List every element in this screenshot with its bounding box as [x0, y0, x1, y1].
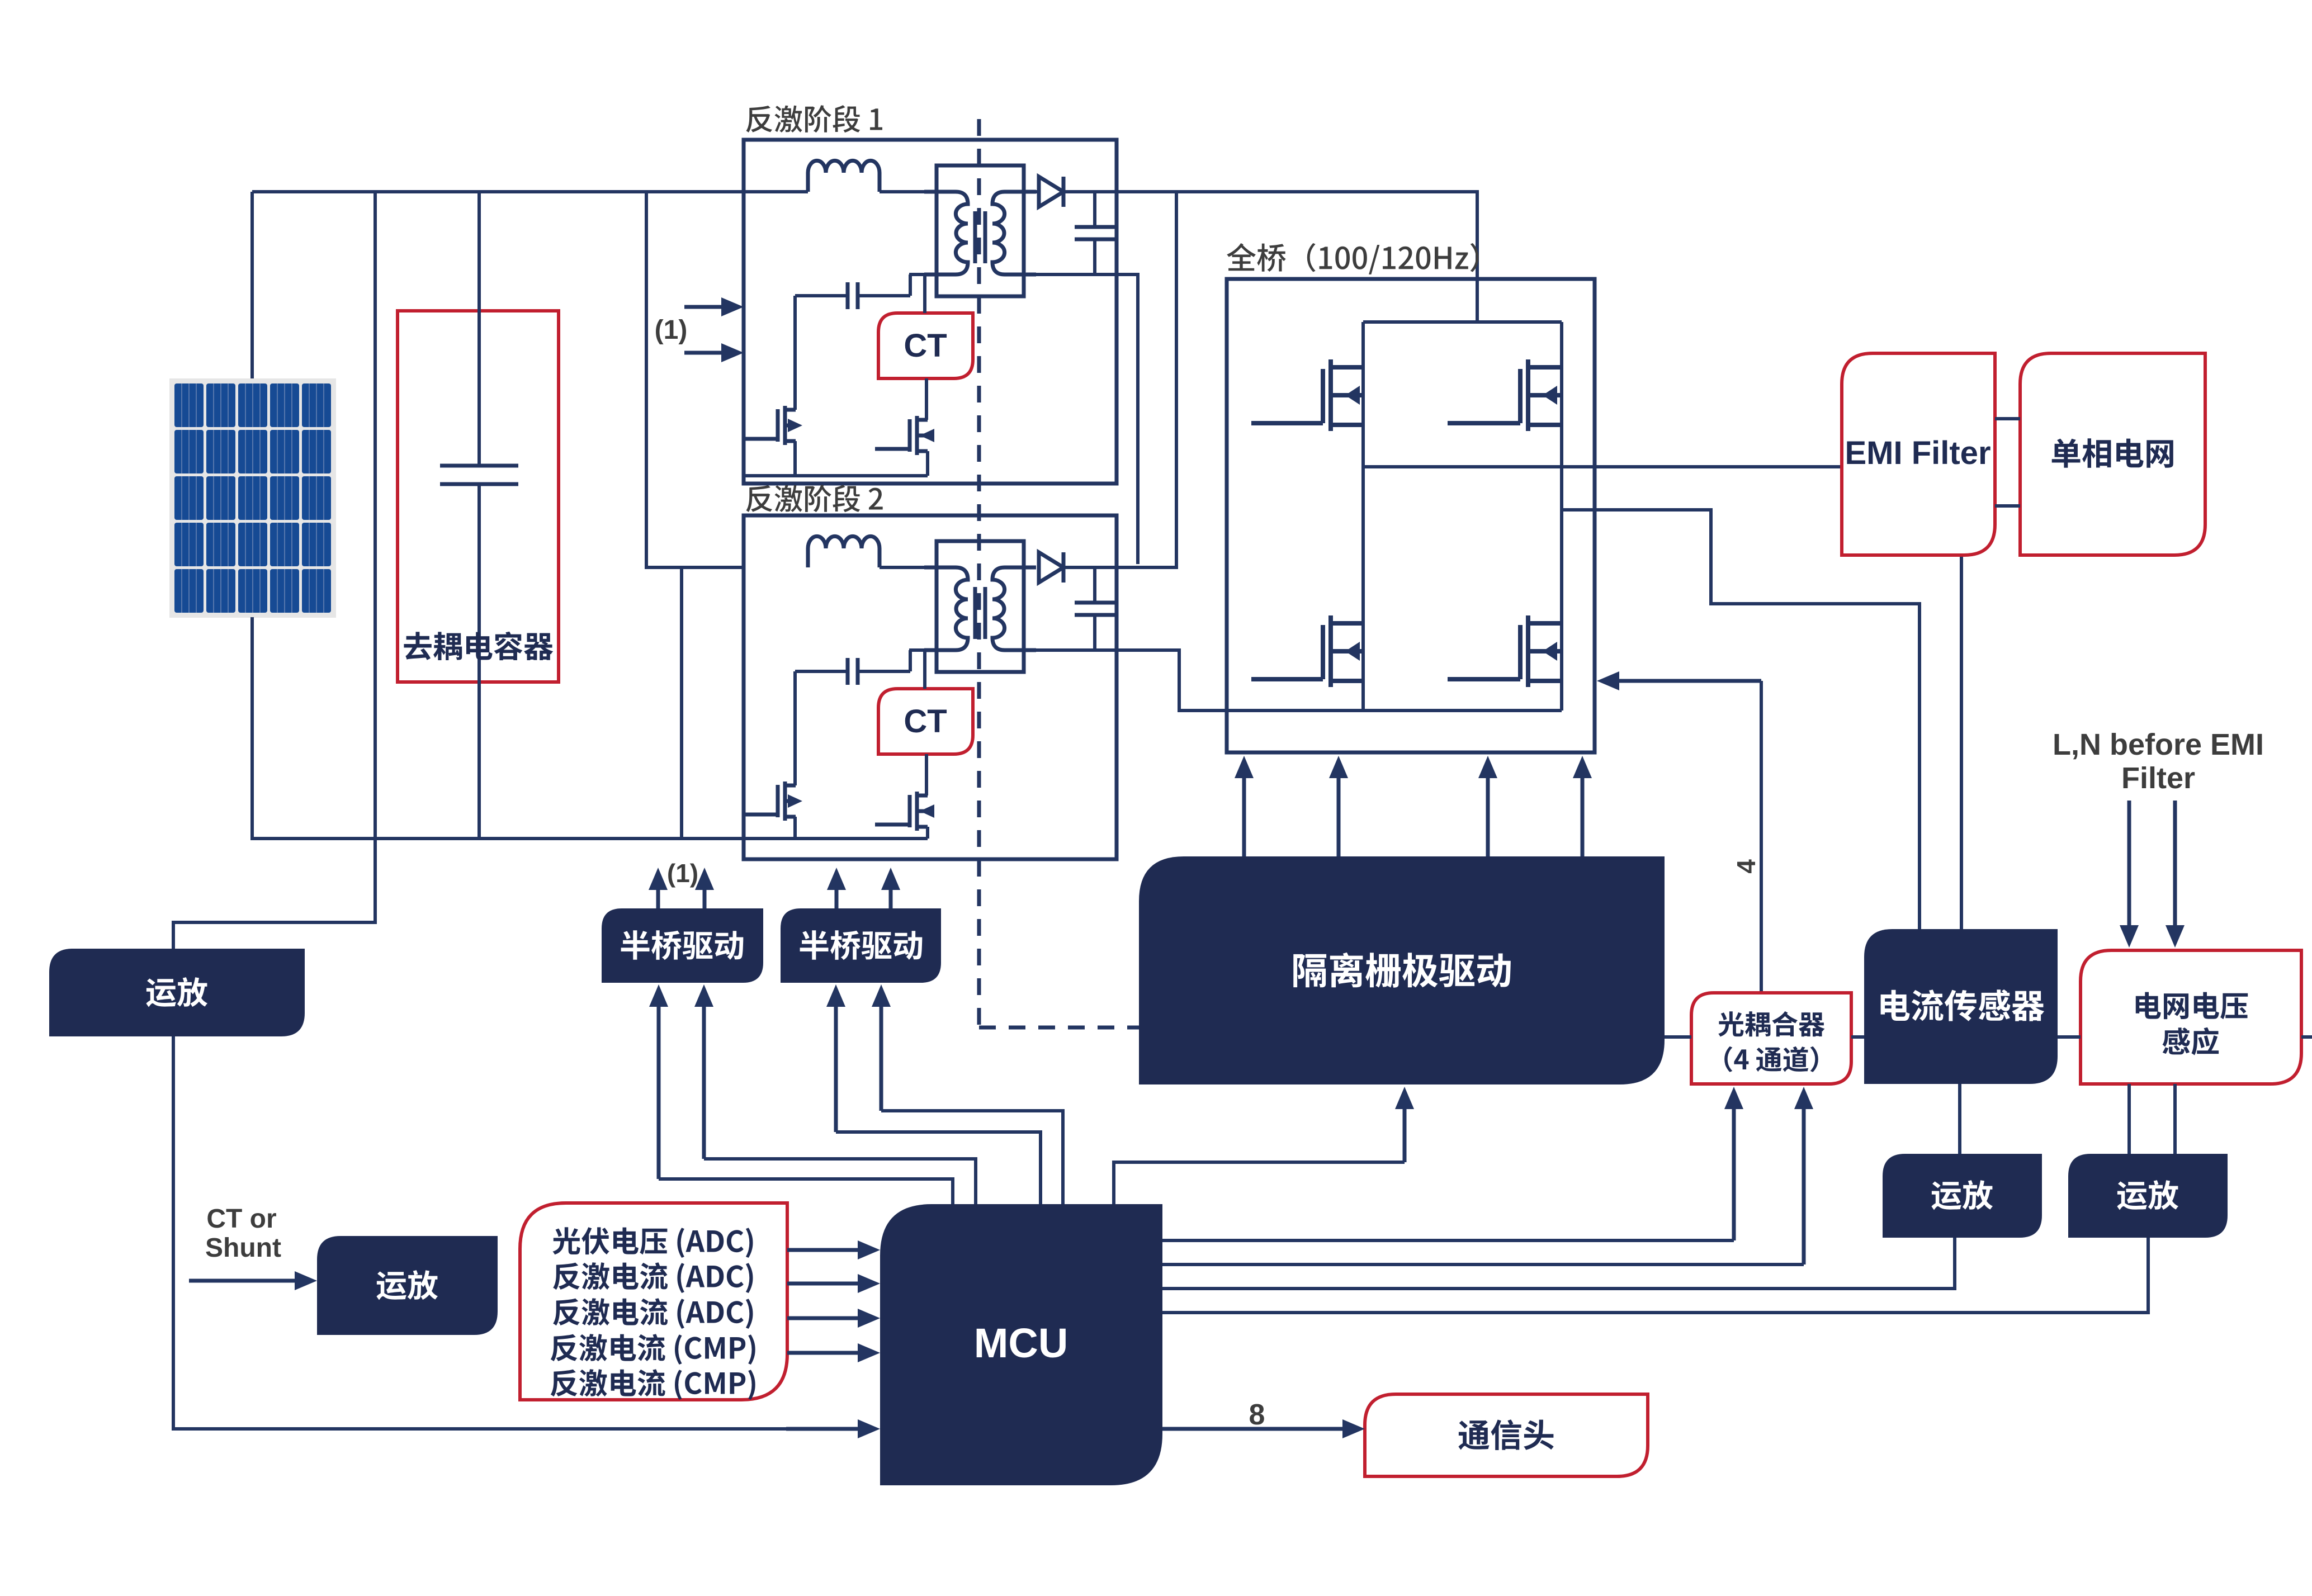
svg-text:L,N before EMI: L,N before EMI [2053, 728, 2264, 761]
transformer T2 [937, 541, 1024, 672]
flyback stage 1 enclosure box [744, 140, 1117, 484]
wire T2 primary bottom to snubber [909, 648, 926, 652]
red callout box: decoupling capacitor [398, 311, 559, 682]
svg-text:Shunt: Shunt [205, 1233, 281, 1263]
arrows ADC list to MCU [787, 1248, 861, 1252]
op-amp box PV voltage sense [49, 949, 305, 1036]
capacitor C3 stage1 clamp [795, 294, 848, 297]
wires EMI filter to grid [1995, 417, 2020, 420]
capacitor C5 stage2 clamp [795, 670, 848, 673]
half-bridge driver box 2 [781, 908, 941, 983]
single phase grid box [2020, 353, 2205, 555]
op-amp box CT/shunt [317, 1236, 498, 1335]
wire branch to flyback stage 2 [646, 192, 744, 567]
isolated gate driver box [1139, 856, 1665, 1084]
svg-text:(1): (1) [655, 315, 688, 345]
wire PV op-amp output to MCU [173, 1036, 859, 1429]
flyback stage 2 enclosure box [744, 515, 1117, 859]
wire CT1 top lead [923, 274, 926, 313]
arrows isolated gate driver to full bridge [1242, 775, 1246, 856]
wire current sensor to grid voltage sensing [2058, 1035, 2081, 1039]
wire PV panel top lead [250, 192, 254, 378]
diode D1 [1036, 190, 1039, 193]
wire Q4 source down to PV- bus [926, 827, 929, 839]
wire MCU to driver1 input A [659, 1179, 953, 1204]
current sensor box [1864, 929, 2058, 1084]
op-amp box current sense [1883, 1154, 2042, 1238]
wire EMI filter down to current sensor [1960, 555, 1963, 929]
transistor Q2 stage1 MOSFET [908, 419, 912, 452]
wire MCU to isolated gate driver [1114, 1162, 1405, 1204]
label 去耦电容器 [404, 632, 553, 660]
inductor L1 [808, 160, 880, 192]
wire MCU to driver2 input A [836, 1132, 1041, 1204]
wire stage2 secondary bottom to bridge low rail [1004, 650, 1363, 711]
wire CT2 top lead [923, 650, 926, 689]
wire Q2 source down to rail [926, 451, 929, 476]
EMI filter box [1842, 353, 1995, 555]
full bridge enclosure box [1227, 279, 1595, 752]
transistor Q5 bridge top-left [1321, 369, 1325, 423]
wire stage1 secondary bottom [1004, 274, 1138, 564]
wire D2 cathode to riser [1063, 192, 1176, 567]
wire T1 primary bottom to snubber [909, 273, 926, 276]
wire branch to PV-voltage op-amp [173, 192, 375, 949]
ADC/CMP signal list red box [520, 1203, 787, 1400]
label 全桥（100/120Hz） [1227, 243, 1478, 274]
CT callout box stage2 [878, 689, 973, 754]
svg-text:CT: CT [904, 328, 947, 364]
arrow CT or Shunt into op-amp [189, 1279, 298, 1283]
wires MCU to optocoupler [1162, 1239, 1734, 1242]
wire bridge output line A to EMI filter [1363, 465, 1842, 468]
wire Q1 source to source rail [793, 441, 797, 476]
svg-text:4: 4 [1732, 859, 1761, 874]
transistor Q6 bridge top-right [1518, 369, 1523, 423]
svg-text:MCU: MCU [974, 1320, 1068, 1366]
CT callout box stage1 [878, 313, 973, 378]
solar panel PV module [169, 378, 336, 618]
note (1) arrows into stage1 [684, 305, 725, 309]
wire bridge output line B to current sensor [1562, 510, 1919, 929]
optocoupler red box [1691, 993, 1851, 1084]
wire optocoupler to current sensor [1851, 1035, 1864, 1039]
transistor Q1 stage1 MOSFET [776, 409, 780, 442]
diode D2 [1039, 552, 1063, 582]
arrows L,N into grid voltage sensing [2127, 801, 2131, 929]
op-amp box grid sense [2068, 1154, 2228, 1238]
wire gate driver to optocoupler [1665, 1035, 1691, 1039]
isolation boundary dashed line [977, 119, 981, 1027]
wire clamp cap left leg down to Q1 drain [793, 296, 797, 410]
MCU box [880, 1204, 1162, 1485]
wire PV panel bottom lead [250, 617, 254, 839]
wire MCU to driver1 input B [704, 1159, 976, 1204]
wire PV- bottom bus [250, 837, 928, 840]
wire op-amp2 to MCU [1162, 1238, 2148, 1313]
half-bridge driver box 1 [602, 908, 763, 983]
wire current sensor to op-amp [1958, 1084, 1961, 1154]
transistor Q3 stage2 MOSFET [776, 785, 780, 817]
wires grid sensing to op-amp2 [2127, 1084, 2131, 1154]
wire PV+ top bus [252, 190, 808, 193]
wire Q3 source to PV- bus [793, 817, 797, 839]
transistor Q4 stage2 MOSFET [908, 795, 912, 827]
transistor Q7 bridge bottom-left [1321, 625, 1325, 679]
capacitor C4 stage2 output [1093, 567, 1096, 603]
arrow MCU to comm header with label 8 [1162, 1427, 1346, 1431]
wire stage1 source rail [744, 474, 928, 477]
grid voltage sensing red box [2081, 950, 2301, 1084]
label 反激阶段 2 [746, 485, 883, 512]
capacitor C2 stage1 output [1093, 192, 1096, 227]
svg-text:CT or: CT or [206, 1204, 276, 1234]
svg-text:Filter: Filter [2121, 761, 2195, 795]
communication header red box [1365, 1394, 1648, 1476]
transformer T1 [937, 165, 1024, 296]
wire MCU to driver2 input B [881, 1111, 1063, 1204]
arrow feedback 4 into bridge [1616, 679, 1761, 683]
capacitor C1 decoupling [477, 192, 481, 466]
svg-text:CT: CT [904, 703, 947, 740]
inductor L2 [808, 536, 880, 567]
wire CT1 bottom lead to Q2 drain [925, 378, 928, 420]
svg-text:EMI Filter: EMI Filter [1845, 435, 1991, 471]
wire D1 cathode to bridge bus [1063, 192, 1477, 322]
wire L2 to T2 primary [880, 566, 937, 569]
wire op-amp to MCU [1162, 1238, 1955, 1289]
wire L1 to T1 primary [880, 190, 937, 193]
wire stage2 branch down to PV- bus [680, 567, 683, 839]
arrows driver2 up to stage [835, 887, 839, 908]
label 反激阶段 1 [746, 105, 883, 132]
arrows driver1 up to stage (1) [656, 887, 660, 908]
wire grid voltage sensing right stub [2301, 1035, 2312, 1039]
svg-text:8: 8 [1249, 1399, 1265, 1431]
svg-text:(1): (1) [667, 859, 698, 888]
wire CT2 bottom lead to Q4 drain [925, 754, 928, 795]
transistor Q8 bridge bottom-right [1518, 625, 1523, 679]
wire bridge inner rails [1363, 320, 1562, 324]
wire clamp cap left leg down to Q3 drain [793, 671, 797, 785]
